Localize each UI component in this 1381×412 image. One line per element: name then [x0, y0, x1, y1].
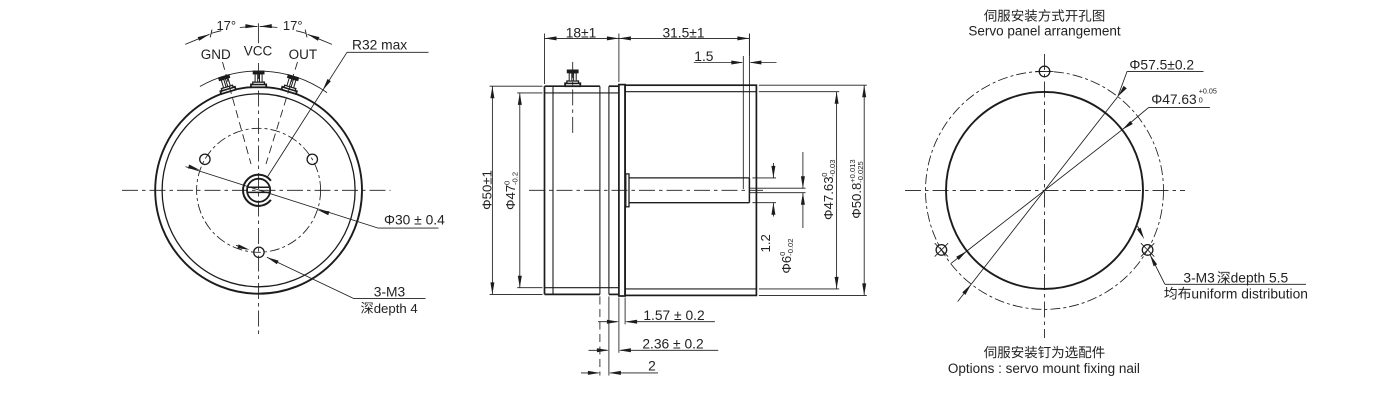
svg-text:17°: 17° — [216, 18, 236, 33]
svg-text:OUT: OUT — [289, 47, 318, 62]
dim 31.5±1 — [748, 34, 750, 57]
right view vertical centerline — [1044, 54, 1046, 338]
dim 2 — [581, 372, 599, 374]
svg-text:Φ47: Φ47 — [503, 185, 518, 210]
svg-text:Φ47.63: Φ47.63 — [1151, 92, 1197, 107]
servo mount cylinder — [625, 85, 756, 295]
body rear step line — [552, 86, 554, 294]
svg-text:18±1: 18±1 — [566, 25, 597, 40]
body inner ring — [162, 94, 355, 287]
terminal on body — [565, 70, 580, 86]
svg-text:-0.03: -0.03 — [828, 159, 837, 176]
svg-text:1.57 ± 0.2: 1.57 ± 0.2 — [643, 308, 704, 323]
screw hole lower-right — [1142, 245, 1153, 256]
svg-text:2: 2 — [648, 359, 656, 374]
svg-text:Servo panel arrangement: Servo panel arrangement — [968, 23, 1121, 38]
dim dia47.63 — [759, 91, 839, 93]
svg-text:-0.02: -0.02 — [786, 238, 795, 255]
body dia47 lines — [545, 92, 619, 94]
svg-text:Φ50.8: Φ50.8 — [849, 183, 864, 219]
dia57.5 dimension — [971, 97, 1118, 285]
svg-text:depth 5.5: depth 5.5 — [1231, 271, 1289, 286]
dia47.63 dimension — [967, 130, 1122, 251]
svg-text:Φ50±1: Φ50±1 — [479, 170, 494, 210]
svg-text:1.5: 1.5 — [694, 49, 714, 64]
svg-text:Φ57.5±0.2: Φ57.5±0.2 — [1129, 58, 1194, 73]
svg-text:uniform distribution: uniform distribution — [1191, 286, 1308, 301]
svg-text:GND: GND — [201, 47, 231, 62]
dim 1.5 — [694, 62, 742, 64]
bolt circle dia30 — [197, 128, 321, 252]
body outer circle — [155, 87, 362, 294]
svg-text:-0.2: -0.2 — [510, 172, 519, 185]
svg-text:depth 4: depth 4 — [374, 301, 418, 316]
svg-text:2.36 ± 0.2: 2.36 ± 0.2 — [642, 337, 703, 352]
screw hole lower-left — [936, 245, 947, 256]
right view title CJK — [984, 9, 996, 21]
pot body outline — [545, 85, 600, 87]
dim dia6 — [772, 163, 774, 178]
dim dia50±1 — [490, 85, 543, 87]
shaft inner circle — [247, 179, 270, 202]
svg-text:31.5±1: 31.5±1 — [662, 25, 704, 40]
dim dia47 — [517, 92, 542, 94]
mounting hole bottom — [254, 247, 264, 257]
dia6 extension lines — [752, 177, 776, 179]
right view horizontal centerline — [905, 189, 1185, 191]
terminal-tip envelope arc R32 — [200, 71, 327, 93]
mounting hole upper-left — [200, 154, 210, 164]
equal spacing arrow near lower-right hole — [1138, 226, 1143, 236]
svg-text:R32 max: R32 max — [352, 38, 407, 53]
dim 2.36±0.2 — [589, 349, 608, 351]
dim 1.57±0.2 — [598, 321, 618, 323]
panel hole dia47.63 — [946, 92, 1143, 289]
body groove lines — [599, 86, 601, 294]
mounting hole upper-right — [307, 154, 317, 164]
svg-text:3-M3: 3-M3 — [1183, 271, 1215, 286]
shaft — [626, 174, 629, 207]
terminal OUT (right, 17 deg) — [281, 74, 300, 94]
svg-text:-0.025: -0.025 — [856, 161, 865, 183]
shaft slot tip lines — [749, 187, 805, 189]
svg-text:0: 0 — [1199, 96, 1203, 105]
shaft C-ring — [243, 175, 271, 206]
equal-spacing arrow on bolt circle — [236, 245, 247, 249]
middle view shaft centerline — [529, 189, 763, 191]
svg-text:Options : servo mount fixing n: Options : servo mount fixing nail — [948, 361, 1140, 376]
svg-text:VCC: VCC — [244, 44, 273, 59]
terminal VCC (top) — [251, 71, 266, 87]
svg-text:+0.05: +0.05 — [1199, 87, 1217, 96]
dim 18±1 — [544, 34, 546, 85]
panel slot lines — [742, 56, 744, 189]
bottom note CJK — [984, 346, 996, 358]
dim 1.2 — [802, 152, 804, 188]
svg-text:17°: 17° — [283, 18, 303, 33]
3-M3 depth 5.5 label — [1150, 255, 1165, 285]
bolt circle dia57.5 — [926, 71, 1164, 309]
dim rows below flange — [599, 297, 601, 376]
screw hole top — [1039, 66, 1050, 77]
shaft slot lines — [247, 186, 271, 188]
dim dia50.8 — [759, 84, 867, 86]
terminal GND (left, 17 deg) — [216, 74, 235, 94]
svg-text:3-M3: 3-M3 — [374, 284, 406, 299]
svg-text:1.2: 1.2 — [758, 234, 773, 252]
left view horizontal centerline — [122, 189, 391, 191]
svg-text:Φ47.63: Φ47.63 — [821, 176, 836, 220]
left view vertical centerline — [258, 63, 260, 336]
17 deg dimension arcs and arrows — [211, 31, 221, 34]
svg-text:Φ30 ± 0.4: Φ30 ± 0.4 — [384, 213, 445, 228]
mounting flange — [619, 85, 625, 296]
svg-text:Φ6: Φ6 — [779, 256, 794, 274]
